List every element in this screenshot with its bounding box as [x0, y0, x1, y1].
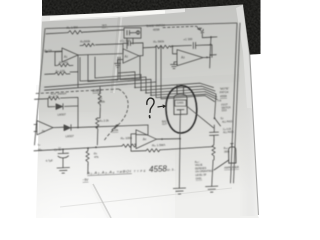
- svg-text:Rw/1k: Rw/1k: [44, 48, 52, 52]
- resistor Rw 560k: [83, 43, 94, 46]
- frame top border: [46, 23, 237, 29]
- wire stub lower: [210, 54, 216, 56]
- op-amp A2: [123, 49, 139, 63]
- vertical crease fold: [112, 17, 120, 93]
- wire bus tap: [99, 87, 101, 94]
- ground tube: [173, 188, 185, 194]
- paper right edge highlight: [236, 5, 252, 108]
- wire: [171, 44, 192, 47]
- svg-text:2222: 2222: [222, 110, 228, 112]
- wire A3 minus input: [173, 46, 178, 54]
- wire jack stem: [202, 34, 211, 38]
- wire cap to fb: [196, 45, 212, 58]
- svg-text:OA91.: OA91.: [196, 177, 203, 180]
- capacitor C feedback A2: [128, 41, 130, 46]
- amplifier plug: [229, 147, 236, 163]
- wire box1: [80, 57, 118, 81]
- svg-text:Rw560k: Rw560k: [80, 39, 91, 43]
- op-amp A5: [37, 121, 53, 135]
- svg-text:Rv 150: Rv 150: [59, 60, 68, 64]
- connector stem: [130, 31, 138, 34]
- resistor R 1.5M: [146, 149, 160, 152]
- frame right border inner: [231, 24, 238, 184]
- wire staircase 3: [88, 77, 216, 94]
- paper right edge shading: [238, 22, 258, 216]
- node: [179, 138, 181, 140]
- op-amp A4: [136, 130, 157, 149]
- wire cluster drop: [127, 38, 133, 49]
- paper top edge highlight strip: [42, 8, 185, 22]
- wire R120 branch: [45, 73, 55, 76]
- wire A3 down rail: [209, 58, 211, 69]
- wire: [65, 105, 79, 107]
- wire D2 to junction: [71, 126, 96, 129]
- node: [96, 126, 98, 128]
- wire right column vertical: [215, 95, 217, 119]
- svg-text:47k: 47k: [94, 155, 99, 159]
- svg-text:Rw 560k: Rw 560k: [153, 39, 164, 44]
- node input dot: [46, 51, 48, 53]
- resistor R 2.2k vertical: [96, 118, 100, 145]
- connector phi: [136, 31, 139, 34]
- wire A5 out: [53, 126, 64, 128]
- wire A5 inputs: [34, 124, 37, 131]
- svg-text:C4 IN: C4 IN: [54, 147, 61, 151]
- wire A2 out: [139, 55, 143, 57]
- wire drop from top row x161: [161, 46, 215, 101]
- tube body: [174, 94, 187, 114]
- wire tube risers: [177, 85, 184, 95]
- tube electrode marks: [177, 110, 184, 115]
- wire plug lead: [214, 160, 229, 170]
- dashed arc boundary: [105, 89, 129, 140]
- ground A3: [171, 64, 178, 68]
- svg-text:Rw 100k: Rw 100k: [121, 136, 133, 141]
- wire staircase 4: [45, 79, 217, 97]
- resistor R 4.7k: [48, 97, 59, 100]
- wire across: [96, 125, 148, 127]
- wire output rail vertical: [210, 37, 211, 58]
- wire: [83, 30, 125, 32]
- node staircase d: [150, 94, 152, 96]
- wire drop x95: [94, 57, 96, 78]
- node: [95, 146, 97, 148]
- resistor Rw 100k: [122, 144, 136, 147]
- wire R560k row: [80, 44, 83, 46]
- resistor Rw 180k vertical: [98, 94, 102, 107]
- wire: [61, 97, 79, 127]
- resistor R 390k vertical: [212, 140, 215, 160]
- node s2: [214, 117, 216, 119]
- svg-text:Rw 4.7k: Rw 4.7k: [49, 94, 59, 98]
- node staircase b: [140, 89, 142, 91]
- svg-text:LM307: LM307: [65, 134, 74, 138]
- node stub upper: [210, 36, 212, 38]
- dashed patch line: [163, 26, 196, 27]
- paper bottom-left bright area: [36, 112, 175, 218]
- wire: [98, 108, 101, 119]
- svg-text:VALUE: VALUE: [195, 164, 203, 167]
- wire diode branch: [48, 99, 55, 107]
- resistor Rw 560k (2): [155, 45, 171, 48]
- svg-text:180k: 180k: [99, 99, 106, 103]
- svg-text:100k: 100k: [112, 128, 119, 132]
- wire A2-A3 row: [143, 46, 155, 49]
- svg-text:+Cw 100: +Cw 100: [120, 39, 131, 43]
- connector jack mark: [200, 28, 203, 33]
- trimmer mark: [127, 31, 130, 36]
- svg-text:4558: 4558: [220, 94, 227, 98]
- tube label box OA91: [175, 100, 186, 106]
- svg-text:Rw 1.5MΛ: Rw 1.5MΛ: [152, 143, 165, 148]
- faint bottom crease: [60, 188, 232, 207]
- bottom-left diagonal crease: [93, 184, 111, 218]
- svg-text:+C 300: +C 300: [183, 37, 193, 41]
- svg-text:Rw 2.2k: Rw 2.2k: [99, 118, 109, 122]
- question mark: [147, 98, 154, 112]
- wire A4 feedback loop: [131, 134, 146, 151]
- op-amp A1: [62, 48, 78, 62]
- svg-text:OA91: OA91: [176, 100, 184, 104]
- ground C4: [57, 168, 70, 174]
- resistor S 120: [55, 72, 70, 75]
- paper sheet: [36, 5, 259, 219]
- switch S2: [215, 118, 221, 126]
- node stub lower: [209, 54, 211, 56]
- frame left border: [35, 29, 46, 146]
- node staircase a: [134, 87, 136, 89]
- wire A3 plus ground stub: [174, 62, 177, 65]
- wire to ground: [212, 160, 213, 186]
- dashed section divider: [36, 89, 118, 94]
- svg-text:ALL PASS: ALL PASS: [223, 131, 234, 134]
- horizontal crease band: [36, 74, 240, 93]
- wire staircase 2: [95, 75, 215, 92]
- plug tip: [231, 144, 234, 147]
- wire staircase 5: [45, 82, 218, 100]
- capacitor C 300pF: [193, 42, 195, 48]
- wire: [213, 125, 215, 132]
- capacitor C4 electrolytic: [58, 150, 69, 168]
- svg-text:ALL PASS: ALL PASS: [222, 120, 233, 123]
- wire top input: [46, 33, 68, 34]
- svg-text:Sw 120: Sw 120: [56, 69, 66, 73]
- wire buzz row: [35, 98, 49, 101]
- wire drop from top row x156: [155, 46, 157, 82]
- wire tube pins up: [177, 86, 184, 95]
- svg-text:OUT→: OUT→: [102, 28, 109, 30]
- wire staircase 1: [118, 72, 214, 88]
- svg-text:Cw 0.05: Cw 0.05: [223, 129, 232, 131]
- wire to A4 plus: [135, 143, 137, 145]
- pot arrow 100k: [112, 125, 118, 130]
- wire A1 minus loop: [55, 52, 62, 66]
- node rail mid: [210, 44, 212, 46]
- svg-text:4558: 4558: [153, 27, 160, 31]
- op-amp A3: [177, 50, 203, 66]
- wire A3 output: [203, 56, 210, 58]
- wire lower row: [34, 146, 122, 151]
- arrow patch: [197, 26, 200, 30]
- junction dot: [172, 45, 174, 47]
- wire input A1: [45, 50, 62, 53]
- svg-text:4.7μF: 4.7μF: [46, 158, 54, 162]
- svg-text:BAD: BAD: [162, 120, 167, 123]
- resistor Ry 1.5M: [68, 30, 82, 34]
- wire drop x88: [87, 55, 89, 81]
- svg-text:390k: 390k: [224, 150, 230, 153]
- input jack box (top-left cluster): [124, 28, 141, 38]
- wire A1 output drop: [77, 55, 79, 88]
- svg-text:BUZZ: BUZZ: [92, 89, 102, 93]
- svg-text:LM307: LM307: [57, 112, 66, 116]
- wire A4 output: [157, 138, 181, 141]
- frame right border outer: [234, 23, 241, 183]
- wire tube diagonal to column: [187, 107, 213, 128]
- wire A2 feedback loop: [123, 43, 143, 56]
- wire: [96, 44, 123, 45]
- question mark dot: [149, 116, 151, 118]
- wire tube cathode down: [179, 115, 180, 189]
- capacitor C 0.05: [210, 132, 219, 140]
- svg-text:Rw2 :: Rw2 :: [195, 162, 201, 164]
- svg-text:AMPLIFIER: AMPLIFIER: [224, 165, 239, 170]
- wire to A1 output rail: [70, 71, 78, 73]
- wire long to right column: [160, 147, 213, 150]
- node: [77, 127, 79, 129]
- ground A2: [115, 63, 121, 67]
- diode D2: [64, 125, 71, 131]
- resistor R 150 (A1 feedback): [55, 63, 73, 66]
- node cap top: [62, 149, 64, 151]
- wire A2 ground stub: [118, 60, 124, 64]
- resistor R3 47k vertical: [86, 148, 90, 164]
- wire -9V: [87, 165, 89, 174]
- node staircase c: [145, 92, 147, 94]
- tube envelope oval: [166, 86, 197, 133]
- arrow from ? to tube: [158, 105, 164, 108]
- node A4 out: [161, 138, 163, 140]
- paper right edge line: [244, 6, 259, 215]
- node A3 out: [206, 57, 208, 59]
- node res top: [87, 147, 89, 149]
- wire box2: [120, 56, 140, 80]
- svg-text:Ry 1.5M: Ry 1.5M: [67, 25, 79, 30]
- diode D1: [56, 104, 63, 110]
- wire down to A4: [136, 125, 148, 135]
- wire A1 to A2: [78, 54, 122, 55]
- ground right column: [206, 186, 218, 192]
- wire stub upper: [211, 36, 217, 38]
- svg-text:GUY: GUY: [162, 124, 168, 126]
